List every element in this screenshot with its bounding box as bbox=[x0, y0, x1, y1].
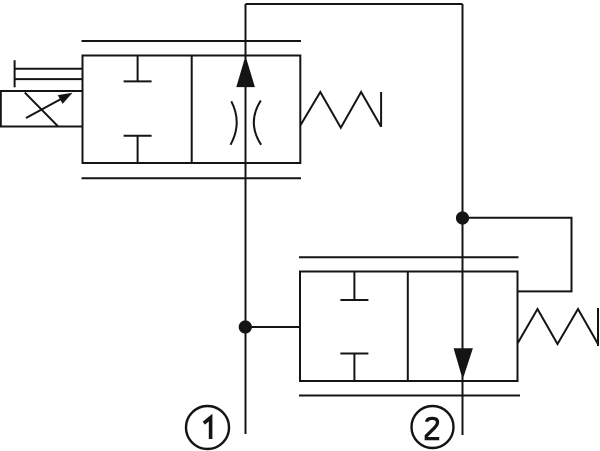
valve V2 flow arrow down (right box) bbox=[454, 348, 473, 379]
port 1 circle bbox=[186, 406, 229, 449]
valve V1 closed port symbol bottom (left box) bbox=[137, 136, 139, 163]
wire junction A to valve V2 left port bbox=[245, 326, 300, 328]
valve V1 lower infinite-position line bbox=[82, 177, 302, 179]
solenoid S1 actuator end bar bbox=[14, 60, 16, 87]
solenoid S1 diagonal bbox=[25, 93, 59, 127]
valve V2 body (bottom 2-position valve) bbox=[300, 272, 518, 382]
wire top horizontal from valve V1 arrow to right branch bbox=[246, 3, 463, 5]
valve V1 closed port symbol top (left box) bbox=[137, 56, 139, 82]
valve V1 center divider bbox=[191, 56, 193, 164]
valve V1 throttle arc left bbox=[231, 101, 237, 145]
port 2 circle bbox=[412, 406, 454, 448]
valve V1 throttle arc right bbox=[254, 101, 261, 145]
node junction dot A (port1 riser to valve V2 inlet) bbox=[239, 320, 252, 333]
solenoid S1 box bbox=[1, 91, 83, 127]
valve V2 closed port symbol bottom (left box) bbox=[353, 354, 355, 382]
valve V2 upper infinite-position line bbox=[299, 256, 519, 258]
wire vertical line 1 (port 1 riser through valve V1) bbox=[245, 4, 247, 434]
valve V2 spring bbox=[518, 309, 599, 344]
valve V2 center divider bbox=[407, 272, 409, 382]
solenoid S1 proportional arrow head bbox=[58, 93, 73, 104]
node junction dot B (port2 riser to pilot line) bbox=[456, 211, 469, 224]
valve V1 upper infinite-position line bbox=[82, 40, 302, 42]
port 1 label digit 1 bbox=[204, 418, 211, 439]
solenoid S1 proportional arrow shaft bbox=[26, 97, 64, 118]
valve V1 body (top 2-position valve) bbox=[83, 56, 301, 164]
valve V2 lower infinite-position line bbox=[299, 395, 520, 397]
port 2 label digit 2 bbox=[426, 418, 439, 438]
valve V2 closed port symbol top (left box) bbox=[353, 272, 355, 301]
wire pilot line from junction B to valve V2 spring side bbox=[463, 218, 572, 292]
valve V1 flow arrow up (right box) bbox=[236, 56, 255, 87]
valve V1 spring bbox=[300, 92, 381, 128]
wire vertical line 2 (port 2 riser through valve V2) bbox=[462, 4, 464, 435]
solenoid S1 actuator line upper bbox=[15, 68, 83, 70]
solenoid S1 actuator line lower bbox=[15, 78, 83, 80]
